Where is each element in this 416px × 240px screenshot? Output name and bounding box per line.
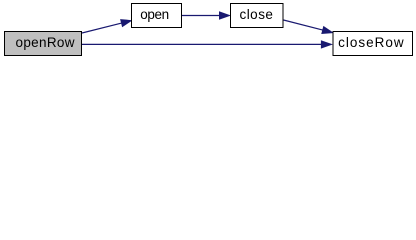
svg-text:closeRow: closeRow <box>338 35 404 50</box>
svg-text:openRow: openRow <box>16 35 75 50</box>
svg-text:close: close <box>239 7 273 22</box>
svg-text:open: open <box>140 7 169 22</box>
